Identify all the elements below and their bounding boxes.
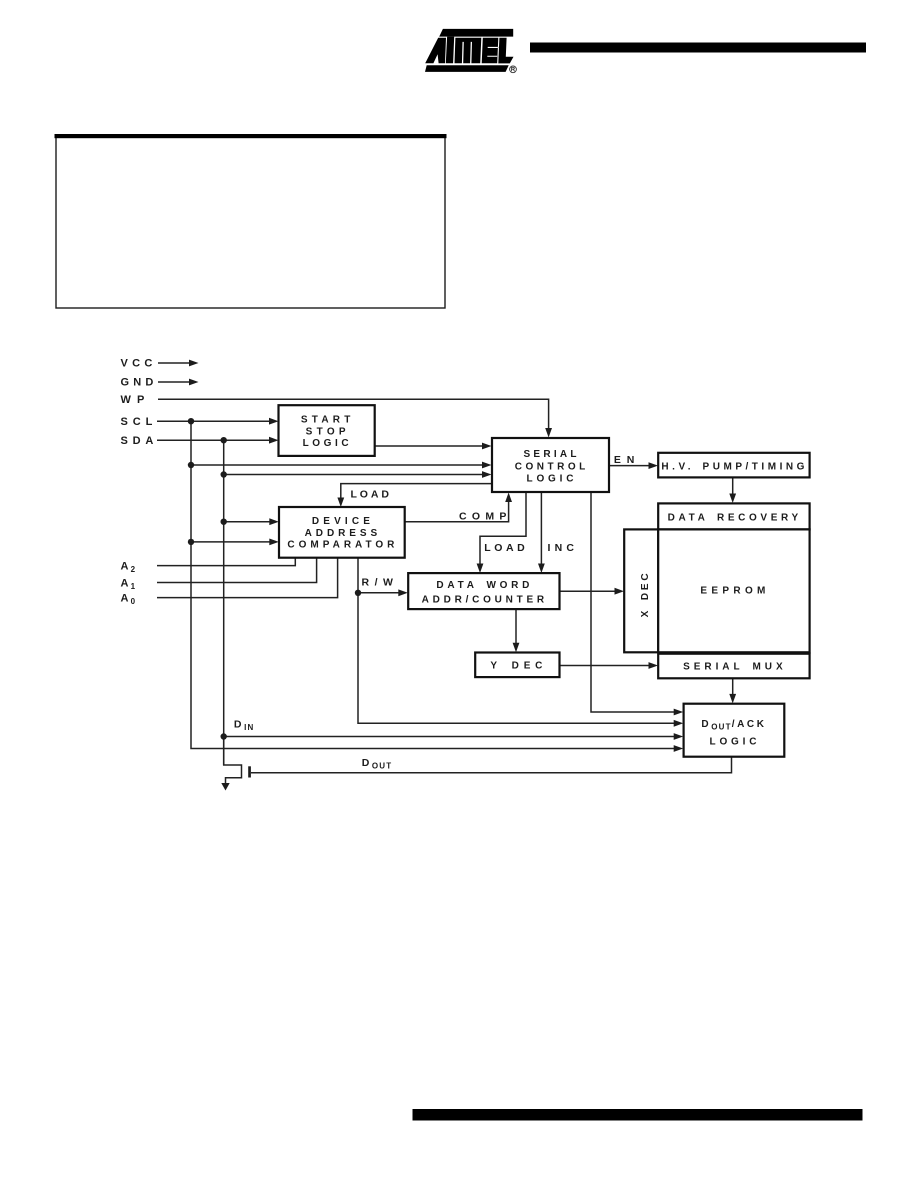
wire LOAD to addr counter bbox=[480, 492, 526, 564]
svg-text:STOP: STOP bbox=[306, 426, 348, 437]
arrow SDA into serial bbox=[482, 471, 492, 478]
block DATA WORD ADDR/COUNTER bbox=[408, 573, 559, 609]
wire A1 bbox=[157, 558, 317, 583]
block H.V. PUMP/TIMING bbox=[658, 453, 809, 478]
wire addr counter to Y dec bbox=[515, 609, 517, 643]
output transistor gate bar bbox=[248, 766, 251, 777]
wire addr counter to X dec bbox=[560, 590, 616, 592]
arrow COMP up into serial bbox=[505, 493, 512, 503]
Atmel logo bbox=[425, 29, 516, 73]
wire COMP bbox=[405, 502, 509, 522]
node SDA tap bbox=[221, 437, 227, 443]
svg-text:DATA WORD: DATA WORD bbox=[436, 580, 531, 591]
block SERIAL MUX bbox=[658, 654, 809, 679]
wire SCL bbox=[157, 420, 270, 422]
wire Y dec to serial mux bbox=[560, 665, 650, 667]
wire start-stop to serial control bbox=[375, 445, 482, 447]
arrow DIN into dout logic bbox=[674, 733, 684, 740]
arrow LOAD into addr counter bbox=[477, 564, 484, 574]
block EEPROM bbox=[658, 529, 809, 652]
svg-text:DEVICE: DEVICE bbox=[312, 516, 372, 527]
block DATA RECOVERY bbox=[658, 503, 809, 529]
svg-text:LOGIC: LOGIC bbox=[527, 474, 576, 485]
arrow SCL into serial bbox=[482, 462, 492, 469]
node DIN tap bbox=[221, 733, 227, 739]
node SCL tap bbox=[188, 418, 194, 424]
svg-text:SERIAL MUX: SERIAL MUX bbox=[683, 662, 785, 673]
arrow WP down bbox=[545, 428, 552, 438]
arrow Y dec into serial mux bbox=[649, 662, 659, 669]
wire VCC bbox=[158, 362, 190, 364]
wire EN bbox=[609, 465, 649, 467]
svg-text:SCL: SCL bbox=[121, 416, 155, 428]
wire SCL bus vertical bbox=[191, 421, 675, 748]
wire R/W bbox=[358, 558, 399, 593]
wire A2 bbox=[157, 558, 295, 566]
svg-text:LOGIC: LOGIC bbox=[303, 438, 351, 449]
wire HV pump to data recovery bbox=[732, 477, 734, 494]
wire INC bbox=[540, 492, 542, 564]
arrow serial mux into dout logic bbox=[729, 694, 736, 704]
arrow SCL into start-stop bbox=[269, 418, 279, 425]
block START STOP LOGIC bbox=[279, 405, 375, 456]
arrow GND bbox=[189, 379, 199, 386]
block Y DEC bbox=[475, 653, 559, 678]
svg-text:LOGIC: LOGIC bbox=[710, 737, 759, 748]
footer rule bar bbox=[413, 1109, 863, 1121]
wire DOUT bbox=[251, 757, 732, 773]
block X DEC bbox=[624, 529, 658, 652]
arrow SDA into comparator bbox=[269, 518, 279, 525]
wire SDA to serial control bbox=[224, 474, 482, 476]
wire WP bbox=[158, 399, 549, 428]
wire serial mux to dout logic bbox=[732, 678, 734, 694]
arrow SDA into start-stop bbox=[269, 437, 279, 444]
arrow LOAD into comparator bbox=[337, 498, 344, 508]
arrow start-stop into serial bbox=[482, 443, 492, 450]
arrow R/W into addr counter bbox=[398, 589, 408, 596]
svg-text:SERIAL: SERIAL bbox=[524, 449, 579, 460]
svg-text:ADDRESS: ADDRESS bbox=[305, 528, 380, 539]
svg-text:GND: GND bbox=[121, 377, 156, 389]
svg-text:LOAD: LOAD bbox=[484, 542, 527, 554]
arrow into Y dec bbox=[513, 643, 520, 653]
block DEVICE ADDRESS COMPARATOR bbox=[279, 507, 405, 558]
wire SDA bus vertical bbox=[223, 440, 225, 765]
wire SDA bbox=[157, 439, 270, 441]
svg-text:EEPROM: EEPROM bbox=[700, 586, 767, 597]
wire SDA to comparator bbox=[224, 521, 270, 523]
svg-text:START: START bbox=[301, 415, 353, 426]
wire SCL to comparator bbox=[191, 541, 270, 543]
arrow R/W into dout logic bbox=[674, 720, 684, 727]
arrow into X dec bbox=[615, 588, 625, 595]
svg-text:CONTROL: CONTROL bbox=[515, 462, 588, 473]
arrow SCL bus into dout logic bbox=[674, 745, 684, 752]
wire serial control to dout logic bbox=[591, 492, 675, 712]
svg-text:INC: INC bbox=[548, 542, 577, 554]
junction dots bbox=[188, 418, 361, 740]
arrow SCL into comparator bbox=[269, 539, 279, 546]
node SCL-comparator tap bbox=[188, 539, 194, 545]
wire LOAD to comparator bbox=[341, 484, 492, 498]
block SERIAL CONTROL LOGIC bbox=[492, 438, 609, 492]
arrow EN into HV pump bbox=[649, 462, 659, 469]
node R/W tap bbox=[355, 590, 361, 596]
wire DIN to dout logic bbox=[224, 736, 675, 738]
svg-text:Y DEC: Y DEC bbox=[490, 661, 544, 672]
wire output transistor channel bbox=[224, 737, 242, 784]
arrowheads bbox=[189, 360, 736, 791]
svg-text:R/W: R/W bbox=[362, 577, 396, 589]
empty figure box bbox=[55, 134, 447, 308]
wire A0 bbox=[157, 558, 338, 598]
svg-text:X DEC: X DEC bbox=[640, 571, 651, 617]
top rule bar bbox=[530, 43, 866, 53]
arrow into data recovery bbox=[729, 494, 736, 504]
wire GND bbox=[158, 381, 190, 383]
arrow serial into dout logic bbox=[674, 709, 684, 716]
svg-text:DOUT/ACK: DOUT/ACK bbox=[701, 719, 766, 732]
wire R/W to dout logic bbox=[358, 593, 675, 724]
svg-text:SDA: SDA bbox=[121, 435, 156, 447]
arrow INC into addr counter bbox=[538, 564, 545, 574]
arrow VCC bbox=[189, 360, 199, 367]
arrow transistor source down bbox=[221, 783, 229, 791]
svg-text:VCC: VCC bbox=[121, 358, 155, 370]
node SDA-serial tap bbox=[221, 471, 227, 477]
wire SCL to serial control bbox=[191, 464, 482, 466]
block DOUT/ACK LOGIC bbox=[684, 704, 785, 757]
svg-text:LOAD: LOAD bbox=[351, 489, 392, 501]
node SCL-serial tap bbox=[188, 462, 194, 468]
node SDA-comparator tap bbox=[221, 519, 227, 525]
svg-text:ADDR/COUNTER: ADDR/COUNTER bbox=[422, 594, 547, 605]
